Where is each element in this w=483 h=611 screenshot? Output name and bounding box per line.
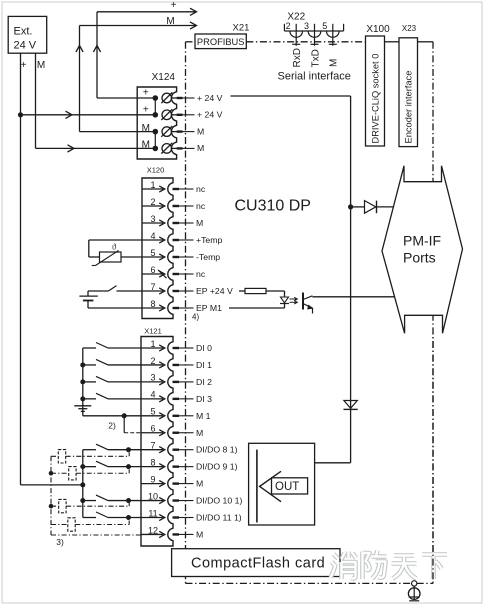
- svg-text:+ 24 V: + 24 V: [197, 93, 223, 103]
- svg-text:+Temp: +Temp: [196, 235, 222, 245]
- svg-text:DI 2: DI 2: [196, 377, 212, 387]
- svg-text:+ 24 V: + 24 V: [197, 110, 223, 120]
- svg-text:M: M: [196, 218, 203, 228]
- svg-text:+: +: [171, 0, 177, 11]
- svg-text:2: 2: [286, 21, 291, 31]
- svg-text:9: 9: [150, 474, 155, 484]
- svg-text:X21: X21: [233, 23, 250, 34]
- svg-text:M: M: [196, 428, 203, 438]
- svg-text:+: +: [143, 104, 149, 115]
- svg-text:M: M: [166, 16, 174, 27]
- svg-text:7: 7: [150, 441, 155, 451]
- svg-text:DI/DO 8 1): DI/DO 8 1): [196, 445, 238, 455]
- svg-text:nc: nc: [196, 269, 206, 279]
- svg-text:5: 5: [150, 248, 155, 258]
- svg-text:2: 2: [150, 356, 155, 366]
- svg-text:DI/DO 11 1): DI/DO 11 1): [196, 513, 242, 523]
- svg-text:CU310 DP: CU310 DP: [235, 198, 311, 215]
- svg-text:DI 3: DI 3: [196, 394, 212, 404]
- svg-text:4): 4): [192, 313, 199, 322]
- svg-text:+: +: [143, 88, 149, 99]
- svg-text:Ext.: Ext.: [14, 26, 33, 38]
- svg-text:OUT: OUT: [275, 481, 299, 493]
- svg-text:3: 3: [150, 214, 155, 224]
- svg-text:PM-IF: PM-IF: [403, 233, 441, 249]
- svg-text:M: M: [142, 140, 150, 151]
- svg-text:DI 0: DI 0: [196, 343, 212, 353]
- svg-text:DRIVE-CLiQ socket 0: DRIVE-CLiQ socket 0: [370, 54, 380, 144]
- svg-text:11: 11: [148, 508, 157, 518]
- svg-text:5: 5: [150, 407, 155, 417]
- svg-text:X121: X121: [144, 327, 162, 336]
- svg-text:TxD: TxD: [310, 49, 321, 67]
- svg-text:1: 1: [150, 180, 155, 190]
- svg-text:-Temp: -Temp: [196, 252, 220, 262]
- svg-text:X120: X120: [147, 166, 165, 175]
- svg-text:X124: X124: [152, 72, 176, 83]
- svg-text:X23: X23: [402, 24, 417, 33]
- svg-text:ϑ: ϑ: [112, 243, 116, 252]
- svg-text:M: M: [196, 479, 203, 489]
- svg-text:M 1: M 1: [196, 411, 211, 421]
- svg-text:M: M: [329, 59, 340, 67]
- svg-text:M: M: [37, 60, 45, 71]
- svg-text:Ports: Ports: [403, 250, 436, 266]
- svg-text:4: 4: [150, 390, 155, 400]
- svg-text:DI/DO 9 1): DI/DO 9 1): [196, 462, 238, 472]
- svg-text:3: 3: [150, 373, 155, 383]
- svg-text:12: 12: [148, 525, 158, 535]
- svg-text:8: 8: [150, 457, 155, 467]
- svg-text:DI/DO 10 1): DI/DO 10 1): [196, 496, 242, 506]
- svg-text:3): 3): [56, 537, 64, 547]
- svg-text:nc: nc: [196, 184, 206, 194]
- svg-text:7: 7: [150, 282, 155, 292]
- svg-text:M: M: [142, 123, 150, 134]
- svg-text:1: 1: [150, 339, 155, 349]
- svg-text:M: M: [196, 529, 203, 539]
- svg-text:PROFIBUS: PROFIBUS: [197, 37, 245, 47]
- svg-text:EP +24 V: EP +24 V: [196, 286, 233, 296]
- svg-text:24 V: 24 V: [14, 40, 37, 52]
- svg-text:5: 5: [322, 21, 327, 31]
- svg-text:2: 2: [150, 197, 155, 207]
- svg-text:RxD: RxD: [292, 48, 303, 67]
- svg-text:8: 8: [150, 299, 155, 309]
- svg-text:M: M: [197, 126, 204, 136]
- svg-text:3: 3: [304, 21, 309, 31]
- svg-text:Encoder interface: Encoder interface: [404, 71, 414, 144]
- svg-text:M: M: [197, 143, 204, 153]
- svg-text:Serial interface: Serial interface: [278, 71, 351, 83]
- svg-text:10: 10: [148, 491, 158, 501]
- svg-text:6: 6: [150, 424, 155, 434]
- svg-text:X100: X100: [366, 24, 390, 35]
- svg-text:nc: nc: [196, 201, 206, 211]
- svg-text:+: +: [21, 60, 27, 71]
- svg-text:6: 6: [150, 265, 155, 275]
- svg-text:EP M1: EP M1: [196, 303, 222, 313]
- svg-text:2): 2): [108, 421, 116, 431]
- svg-text:4: 4: [150, 231, 155, 241]
- svg-text:CompactFlash card: CompactFlash card: [191, 556, 325, 572]
- svg-text:DI 1: DI 1: [196, 360, 212, 370]
